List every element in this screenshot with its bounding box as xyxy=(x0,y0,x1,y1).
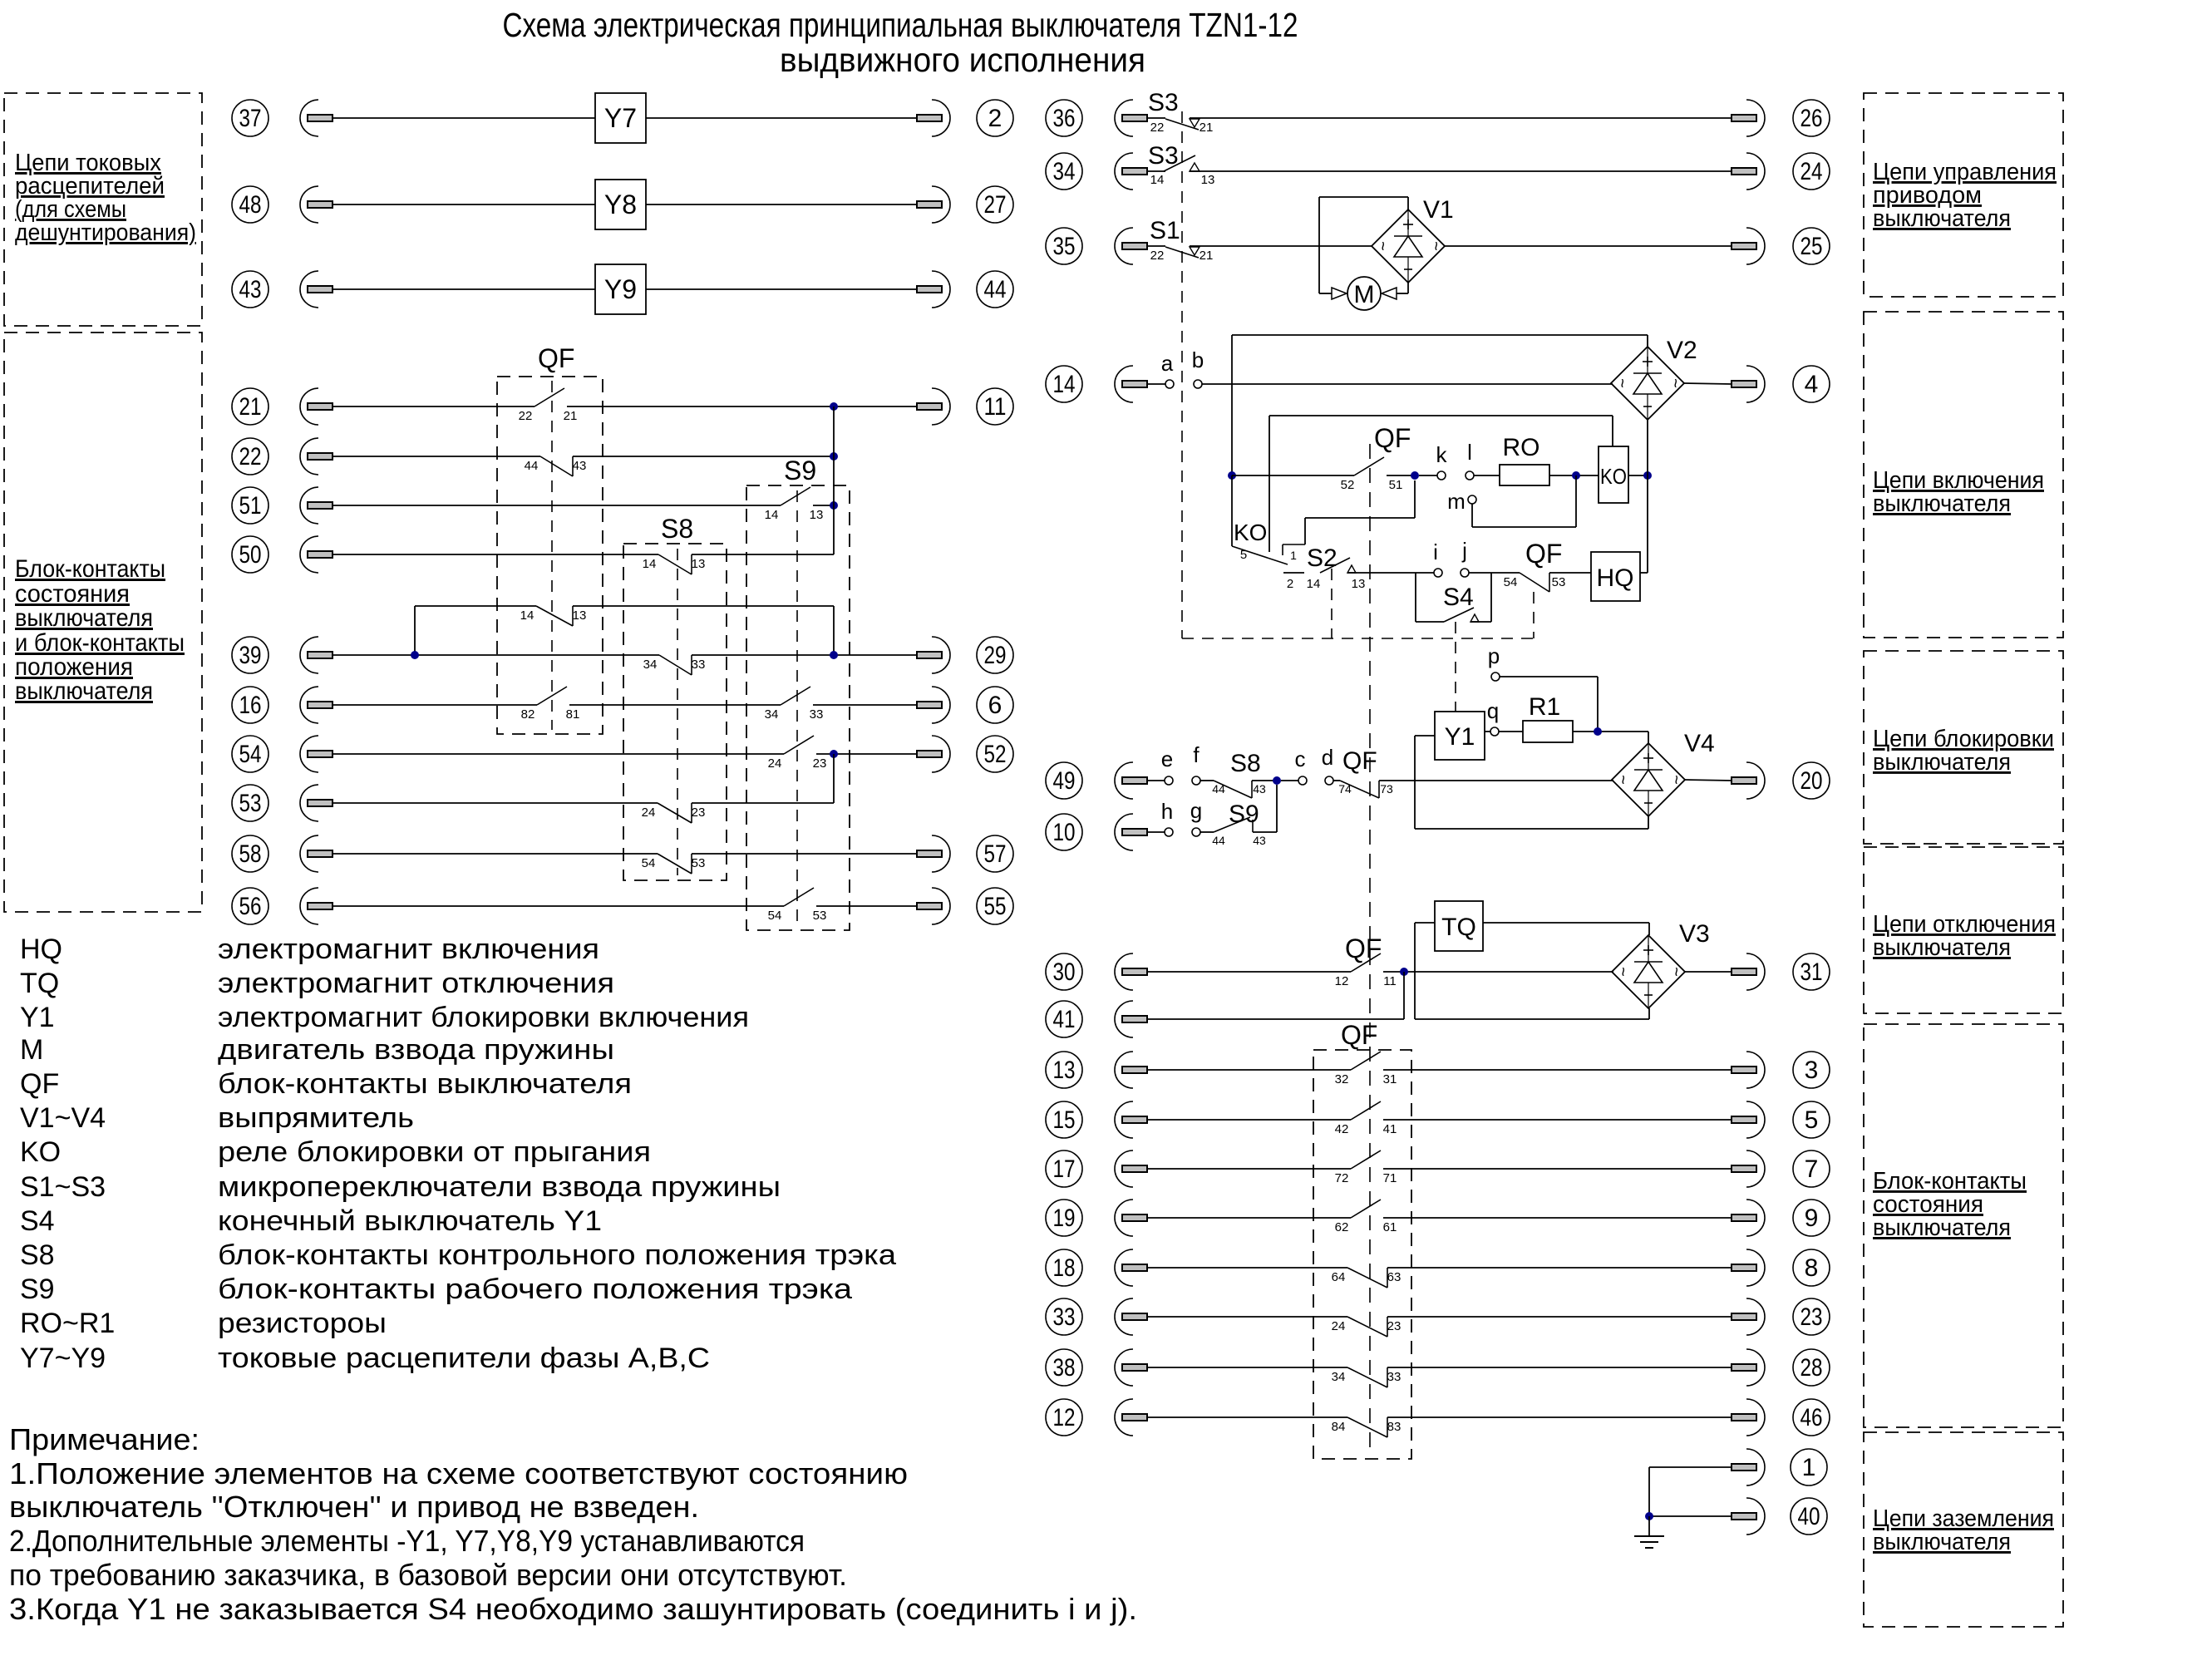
svg-text:j: j xyxy=(1461,538,1467,563)
closing electromagnet HQ xyxy=(1591,552,1640,601)
terminal circle 20 xyxy=(1793,762,1830,799)
svg-text:выключателя: выключателя xyxy=(15,604,153,632)
contact S9 34-33 xyxy=(765,687,824,722)
plug contact b xyxy=(1194,380,1202,388)
svg-text:выдвижного исполнения: выдвижного исполнения xyxy=(780,41,1145,79)
terminal circle 28 xyxy=(1793,1349,1830,1386)
svg-text:9: 9 xyxy=(1805,1205,1819,1232)
svg-text:42: 42 xyxy=(1335,1122,1349,1136)
svg-text:8: 8 xyxy=(1805,1254,1819,1282)
svg-text:3: 3 xyxy=(1805,1057,1819,1084)
terminal circle 12 xyxy=(1046,1399,1082,1436)
svg-text:блок-контакты рабочего положе: блок-контакты рабочего положения трэка xyxy=(218,1274,852,1305)
terminal circle 10 xyxy=(1046,814,1082,850)
terminal circle 5 xyxy=(1793,1101,1830,1138)
svg-text:13: 13 xyxy=(810,508,824,522)
svg-text:58: 58 xyxy=(239,840,262,868)
wire xyxy=(1200,831,1214,833)
svg-text:46: 46 xyxy=(1801,1404,1823,1431)
svg-text:V1~V4: V1~V4 xyxy=(20,1102,106,1134)
svg-text:Схема электрическая принципиал: Схема электрическая принципиальная выклю… xyxy=(503,6,1298,44)
terminal circle 6 xyxy=(977,687,1013,723)
wire xyxy=(1147,780,1165,781)
svg-text:24: 24 xyxy=(768,756,782,771)
svg-text:V1: V1 xyxy=(1423,196,1454,224)
connector pin row 55 xyxy=(917,888,950,924)
svg-text:выключателя: выключателя xyxy=(1873,490,2011,517)
contact S8 34-33 xyxy=(643,655,706,675)
right region box: grounding circuits xyxy=(1864,1432,2063,1627)
wire xyxy=(1147,383,1165,385)
plug contact d xyxy=(1325,776,1333,785)
svg-text:V3: V3 xyxy=(1679,920,1710,948)
block-contact group S8 (test position track contacts) xyxy=(623,544,727,880)
svg-text:19: 19 xyxy=(1053,1205,1076,1232)
svg-text:62: 62 xyxy=(1335,1220,1349,1234)
contact QF 44-43 xyxy=(525,456,587,476)
wire xyxy=(813,704,917,706)
terminal circle 37 xyxy=(232,100,268,136)
connector pin row 8 xyxy=(1732,1249,1765,1286)
svg-text:блок-контакты контрольного пол: блок-контакты контрольного положения трэ… xyxy=(218,1239,896,1271)
svg-text:5: 5 xyxy=(1805,1106,1819,1134)
wire xyxy=(333,753,784,755)
rectifier V2 xyxy=(1611,337,1697,420)
svg-text:TQ: TQ xyxy=(20,968,59,999)
svg-text:выключателя: выключателя xyxy=(1873,1214,2011,1241)
svg-text:RO: RO xyxy=(1503,434,1540,461)
link contact k xyxy=(1437,471,1446,480)
svg-text:22: 22 xyxy=(519,409,533,423)
svg-text:18: 18 xyxy=(1053,1254,1076,1282)
terminal circle 48 xyxy=(232,186,268,223)
svg-text:83: 83 xyxy=(1387,1420,1401,1434)
svg-text:11: 11 xyxy=(1383,974,1397,988)
wire xyxy=(1383,1217,1732,1219)
notes block xyxy=(9,1422,1137,1626)
svg-text:48: 48 xyxy=(239,191,262,219)
svg-text:50: 50 xyxy=(239,541,262,569)
svg-text:выключателя: выключателя xyxy=(1873,1529,2011,1555)
contact S9 14-13 xyxy=(765,487,824,522)
wire xyxy=(1419,475,1437,476)
right region box: state block contacts xyxy=(1864,1024,2063,1427)
contact QF 22-21 xyxy=(519,388,578,423)
terminal circle 34 xyxy=(1046,153,1082,190)
svg-text:53: 53 xyxy=(692,856,706,870)
svg-text:24: 24 xyxy=(642,806,656,820)
connector pin row 28 xyxy=(1732,1349,1765,1386)
svg-text:m: m xyxy=(1447,489,1466,514)
svg-text:l: l xyxy=(1467,440,1472,465)
svg-text:54: 54 xyxy=(642,856,656,870)
connector pin row 19 xyxy=(1115,1200,1147,1236)
S2 linkage xyxy=(1331,569,1333,638)
svg-text:21: 21 xyxy=(1200,121,1214,135)
connector pin row 20 xyxy=(1732,762,1765,799)
right region box: opening circuits xyxy=(1864,847,2063,1013)
wire V1 dc- xyxy=(1397,293,1408,294)
svg-text:82: 82 xyxy=(521,707,535,722)
svg-text:40: 40 xyxy=(1798,1503,1820,1530)
terminal circle 23 xyxy=(1793,1298,1830,1335)
svg-text:37: 37 xyxy=(239,105,262,132)
connector pin row 35 xyxy=(1115,228,1147,264)
connector pin row 22 xyxy=(300,438,333,475)
wire xyxy=(1383,1119,1732,1121)
connector pin row 38 xyxy=(1115,1349,1147,1386)
node p xyxy=(1491,672,1500,681)
wire xyxy=(1202,383,1613,385)
connector pin row 15 xyxy=(1115,1101,1147,1138)
rectifier V4 xyxy=(1612,730,1715,816)
svg-text:Y8: Y8 xyxy=(604,190,637,219)
wire xyxy=(569,704,781,706)
wire xyxy=(333,802,658,804)
plug contact f xyxy=(1192,776,1200,785)
S8 mechanical linkage xyxy=(677,549,678,875)
contact S8 44-43 xyxy=(1214,781,1252,798)
svg-text:34: 34 xyxy=(765,707,779,722)
junction xyxy=(830,402,838,411)
svg-text:33: 33 xyxy=(692,658,706,672)
svg-text:57: 57 xyxy=(984,840,1007,868)
svg-text:51: 51 xyxy=(239,492,262,520)
wire xyxy=(1147,1168,1351,1170)
connector pin row 13 xyxy=(1115,1052,1147,1088)
wire xyxy=(333,204,595,205)
terminal circle 26 xyxy=(1793,100,1830,136)
junction xyxy=(830,651,838,659)
contact S2 14-13 xyxy=(1283,572,1304,574)
svg-text:4: 4 xyxy=(1805,371,1819,398)
wire xyxy=(1147,1316,1347,1318)
contact S8 24-23 xyxy=(642,803,706,823)
current release Y7 xyxy=(595,93,646,143)
svg-text:HQ: HQ xyxy=(20,934,62,965)
contact S1 22-21 (microswitch) xyxy=(1165,247,1199,258)
plug contact g xyxy=(1192,828,1200,836)
wire xyxy=(333,853,658,855)
connector pin row 57 xyxy=(917,835,950,872)
svg-text:74: 74 xyxy=(1338,782,1352,796)
svg-text:1: 1 xyxy=(1290,549,1297,562)
wire xyxy=(1649,1466,1732,1468)
terminal circle 31 xyxy=(1793,953,1830,990)
contact S8 54-53 xyxy=(642,854,706,874)
svg-text:36: 36 xyxy=(1053,105,1076,132)
wire Y1 left to dc- xyxy=(1415,735,1435,737)
svg-text:32: 32 xyxy=(1335,1072,1349,1086)
connector pin row 44 xyxy=(917,271,950,308)
svg-text:44: 44 xyxy=(1212,834,1225,847)
legend designators and descriptions xyxy=(20,934,896,1374)
wire xyxy=(333,905,784,907)
contact S9 24-23 xyxy=(768,736,827,771)
svg-text:V4: V4 xyxy=(1684,730,1715,757)
svg-text:43: 43 xyxy=(1253,834,1266,847)
connector pin row 53 xyxy=(300,785,333,821)
svg-text:15: 15 xyxy=(1053,1106,1076,1134)
plug contact h xyxy=(1165,828,1173,836)
svg-text:5: 5 xyxy=(1240,548,1247,562)
contact QF 54-53 xyxy=(1520,573,1549,592)
terminal circle 22 xyxy=(232,438,268,475)
terminal circle 3 xyxy=(1793,1052,1830,1088)
svg-text:24: 24 xyxy=(1332,1319,1346,1333)
svg-text:73: 73 xyxy=(1380,782,1393,796)
terminal circle 29 xyxy=(977,637,1013,673)
contact KO 5-1 xyxy=(1231,475,1233,546)
terminal circle 39 xyxy=(232,637,268,673)
wire xyxy=(1252,780,1277,781)
connector pin row 2 xyxy=(917,100,950,136)
terminal circle 33 xyxy=(1046,1298,1082,1335)
svg-text:33: 33 xyxy=(1387,1370,1401,1384)
svg-text:29: 29 xyxy=(984,642,1007,669)
wire xyxy=(646,117,917,119)
svg-text:QF: QF xyxy=(1342,747,1377,775)
svg-text:14: 14 xyxy=(643,557,657,571)
wire xyxy=(333,654,659,656)
svg-text:S3: S3 xyxy=(1148,89,1179,116)
svg-text:~: ~ xyxy=(1373,241,1392,251)
junction xyxy=(1643,471,1652,480)
svg-text:блок-контакты выключателя: блок-контакты выключателя xyxy=(218,1068,632,1100)
svg-text:QF: QF xyxy=(1374,423,1411,453)
svg-text:QF: QF xyxy=(1345,934,1382,963)
svg-text:S9: S9 xyxy=(784,456,816,485)
junction xyxy=(1228,471,1236,480)
svg-text:22: 22 xyxy=(1150,249,1165,263)
terminal circle 52 xyxy=(977,736,1013,772)
contact QF 82-81 xyxy=(521,687,580,722)
connector pin row 4 xyxy=(1732,366,1765,402)
svg-text:электромагнит включения: электромагнит включения xyxy=(218,934,599,965)
svg-text:3.Когда Y1 не заказывается S4: 3.Когда Y1 не заказывается S4 необходимо… xyxy=(9,1592,1137,1626)
svg-text:23: 23 xyxy=(813,756,827,771)
connector pin row 41 xyxy=(1115,1001,1147,1037)
contact QF 24-23 xyxy=(1332,1317,1401,1337)
wire xyxy=(1573,731,1648,732)
terminal circle 14 xyxy=(1046,366,1082,402)
wire xyxy=(1147,1416,1347,1418)
wire xyxy=(333,456,540,457)
svg-text:14: 14 xyxy=(1053,371,1076,398)
svg-text:Y7~Y9: Y7~Y9 xyxy=(20,1343,106,1374)
svg-text:c: c xyxy=(1295,746,1306,771)
svg-text:56: 56 xyxy=(239,893,262,920)
terminal circle 24 xyxy=(1793,153,1830,190)
svg-text:M: M xyxy=(20,1034,43,1066)
svg-text:72: 72 xyxy=(1335,1171,1349,1185)
svg-text:S4: S4 xyxy=(1443,584,1474,611)
svg-text:S8: S8 xyxy=(20,1239,55,1271)
connector pin row 23 xyxy=(1732,1298,1765,1335)
svg-text:реле блокировки от прыгания: реле блокировки от прыгания xyxy=(218,1136,651,1168)
svg-text:43: 43 xyxy=(573,459,587,473)
svg-text:2: 2 xyxy=(988,105,1002,132)
terminal circle 7 xyxy=(1793,1150,1830,1187)
wire xyxy=(1640,572,1648,574)
svg-text:k: k xyxy=(1436,442,1448,467)
wire xyxy=(1485,731,1490,732)
svg-text:~: ~ xyxy=(1613,775,1632,785)
limit switch S4 shunt xyxy=(1415,573,1416,622)
connector pin row 11 xyxy=(917,388,950,425)
terminal circle 58 xyxy=(232,835,268,872)
svg-text:QF: QF xyxy=(1525,539,1562,569)
svg-text:выключатель ''Отключен'' и при: выключатель ''Отключен'' и привод не взв… xyxy=(9,1490,699,1524)
right region box: locking circuits xyxy=(1864,651,2063,844)
svg-text:~: ~ xyxy=(1667,775,1685,785)
wire V1 dc+ loop xyxy=(1407,197,1409,209)
terminal circle 56 xyxy=(232,888,268,924)
svg-text:выключателя: выключателя xyxy=(1873,205,2011,232)
connector pin row 25 xyxy=(1732,228,1765,264)
svg-text:f: f xyxy=(1193,742,1200,767)
svg-text:44: 44 xyxy=(984,276,1007,303)
svg-text:e: e xyxy=(1161,746,1173,771)
wire xyxy=(1147,170,1165,172)
svg-text:i: i xyxy=(1433,539,1438,564)
terminal circle 9 xyxy=(1793,1200,1830,1236)
contact QF 72-71 xyxy=(1335,1150,1397,1185)
wire xyxy=(1281,780,1298,781)
plug enclosure bottom dashed xyxy=(1182,638,1534,639)
svg-text:24: 24 xyxy=(1801,158,1823,185)
svg-text:49: 49 xyxy=(1053,767,1076,795)
ground symbol xyxy=(1634,1516,1664,1548)
wire xyxy=(1649,1515,1732,1517)
wire xyxy=(1147,117,1165,119)
contact QF 34-33 xyxy=(1332,1367,1401,1387)
block-contact group S9 (work position track contacts) xyxy=(746,485,850,930)
wire xyxy=(646,288,917,290)
svg-text:21: 21 xyxy=(1200,249,1214,263)
connector pin row 50 xyxy=(300,536,333,573)
terminal circle 54 xyxy=(232,736,268,772)
wire xyxy=(333,554,658,555)
svg-text:23: 23 xyxy=(1801,1303,1823,1331)
svg-text:14: 14 xyxy=(1150,173,1165,187)
plug contact e xyxy=(1165,776,1173,785)
wire KO top rail xyxy=(1269,415,1613,416)
wire xyxy=(333,704,537,706)
wire dc rail to V2 top xyxy=(1232,334,1648,336)
svg-text:22: 22 xyxy=(239,443,262,470)
link contact j xyxy=(1461,569,1469,577)
connector pin row 40 xyxy=(1732,1498,1765,1535)
connector pin row 27 xyxy=(917,186,950,223)
connector pin row 58 xyxy=(300,835,333,872)
svg-text:31: 31 xyxy=(1383,1072,1397,1086)
contact QF 32-31 xyxy=(1335,1052,1397,1086)
svg-text:резистороы: резистороы xyxy=(218,1308,387,1339)
link contact i xyxy=(1434,569,1442,577)
svg-text:электромагнит блокировки включ: электромагнит блокировки включения xyxy=(218,1002,749,1033)
connector pin row 52 xyxy=(917,736,950,772)
terminal circle 1 xyxy=(1791,1449,1827,1485)
connector pin row 1 xyxy=(1732,1449,1765,1485)
wire staircase to junction xyxy=(1304,518,1306,544)
svg-text:12: 12 xyxy=(1053,1404,1076,1431)
svg-text:11: 11 xyxy=(984,393,1007,421)
svg-text:a: a xyxy=(1161,351,1174,376)
terminal circle 55 xyxy=(977,888,1013,924)
svg-text:12: 12 xyxy=(1335,974,1349,988)
svg-text:43: 43 xyxy=(1253,782,1266,796)
svg-text:13: 13 xyxy=(1352,577,1366,591)
wire xyxy=(333,406,534,407)
svg-text:~: ~ xyxy=(1666,378,1684,388)
svg-text:34: 34 xyxy=(1053,158,1076,185)
wire xyxy=(1387,1267,1732,1269)
contact QF 62-61 xyxy=(1335,1200,1397,1234)
block-contact group QF (state contacts, bottom) xyxy=(1313,1050,1411,1459)
svg-text:RO~R1: RO~R1 xyxy=(20,1308,115,1339)
contact S3 14-13 (microswitch) xyxy=(1164,155,1195,171)
svg-text:QF: QF xyxy=(1341,1020,1377,1050)
svg-text:44: 44 xyxy=(1212,782,1225,796)
contact QF 84-83 xyxy=(1332,1417,1401,1437)
svg-text:QF: QF xyxy=(20,1068,59,1100)
wire xyxy=(1147,245,1165,247)
svg-text:HQ: HQ xyxy=(1597,564,1634,592)
svg-text:28: 28 xyxy=(1801,1354,1823,1382)
wire xyxy=(1147,1119,1351,1121)
svg-text:71: 71 xyxy=(1383,1171,1397,1185)
QF linkage to enclosure xyxy=(1533,592,1535,638)
left region box: block contacts of breaker state and position xyxy=(4,333,202,912)
wire xyxy=(573,456,834,457)
connector pin row 3 xyxy=(1732,1052,1765,1088)
connector pin row 16 xyxy=(300,687,333,723)
wire xyxy=(1549,572,1591,574)
wire xyxy=(1147,971,1351,973)
junction xyxy=(1273,776,1281,785)
wire xyxy=(1474,475,1500,476)
svg-text:52: 52 xyxy=(984,741,1007,768)
wire xyxy=(816,905,917,907)
wire xyxy=(1469,572,1520,574)
svg-text:16: 16 xyxy=(239,692,262,719)
node q xyxy=(1490,727,1499,736)
svg-text:токовые расцепители фазы A,B,C: токовые расцепители фазы A,B,C xyxy=(218,1343,710,1374)
terminal circle 4 xyxy=(1793,366,1830,402)
svg-text:6: 6 xyxy=(988,692,1002,719)
wire xyxy=(813,505,834,506)
svg-text:10: 10 xyxy=(1053,819,1076,846)
svg-text:h: h xyxy=(1161,799,1173,824)
opening electromagnet TQ xyxy=(1435,901,1483,951)
svg-text:44: 44 xyxy=(525,459,539,473)
svg-text:38: 38 xyxy=(1053,1354,1076,1382)
svg-text:S2: S2 xyxy=(1307,544,1337,572)
wire xyxy=(1685,780,1732,781)
terminal circle 30 xyxy=(1046,953,1082,990)
svg-text:Y7: Y7 xyxy=(604,103,637,133)
svg-text:Примечание:: Примечание: xyxy=(9,1422,200,1456)
wire V3 dc- rail xyxy=(1415,1018,1649,1020)
link contact m xyxy=(1468,495,1476,504)
terminal circle 53 xyxy=(232,785,268,821)
wire xyxy=(1147,831,1165,833)
svg-text:1.Положение элементов на схеме: 1.Положение элементов на схеме соответст… xyxy=(9,1456,908,1490)
svg-text:выпрямитель: выпрямитель xyxy=(218,1102,414,1134)
svg-text:23: 23 xyxy=(692,806,706,820)
wire V4 dc- rail xyxy=(1648,816,1649,829)
